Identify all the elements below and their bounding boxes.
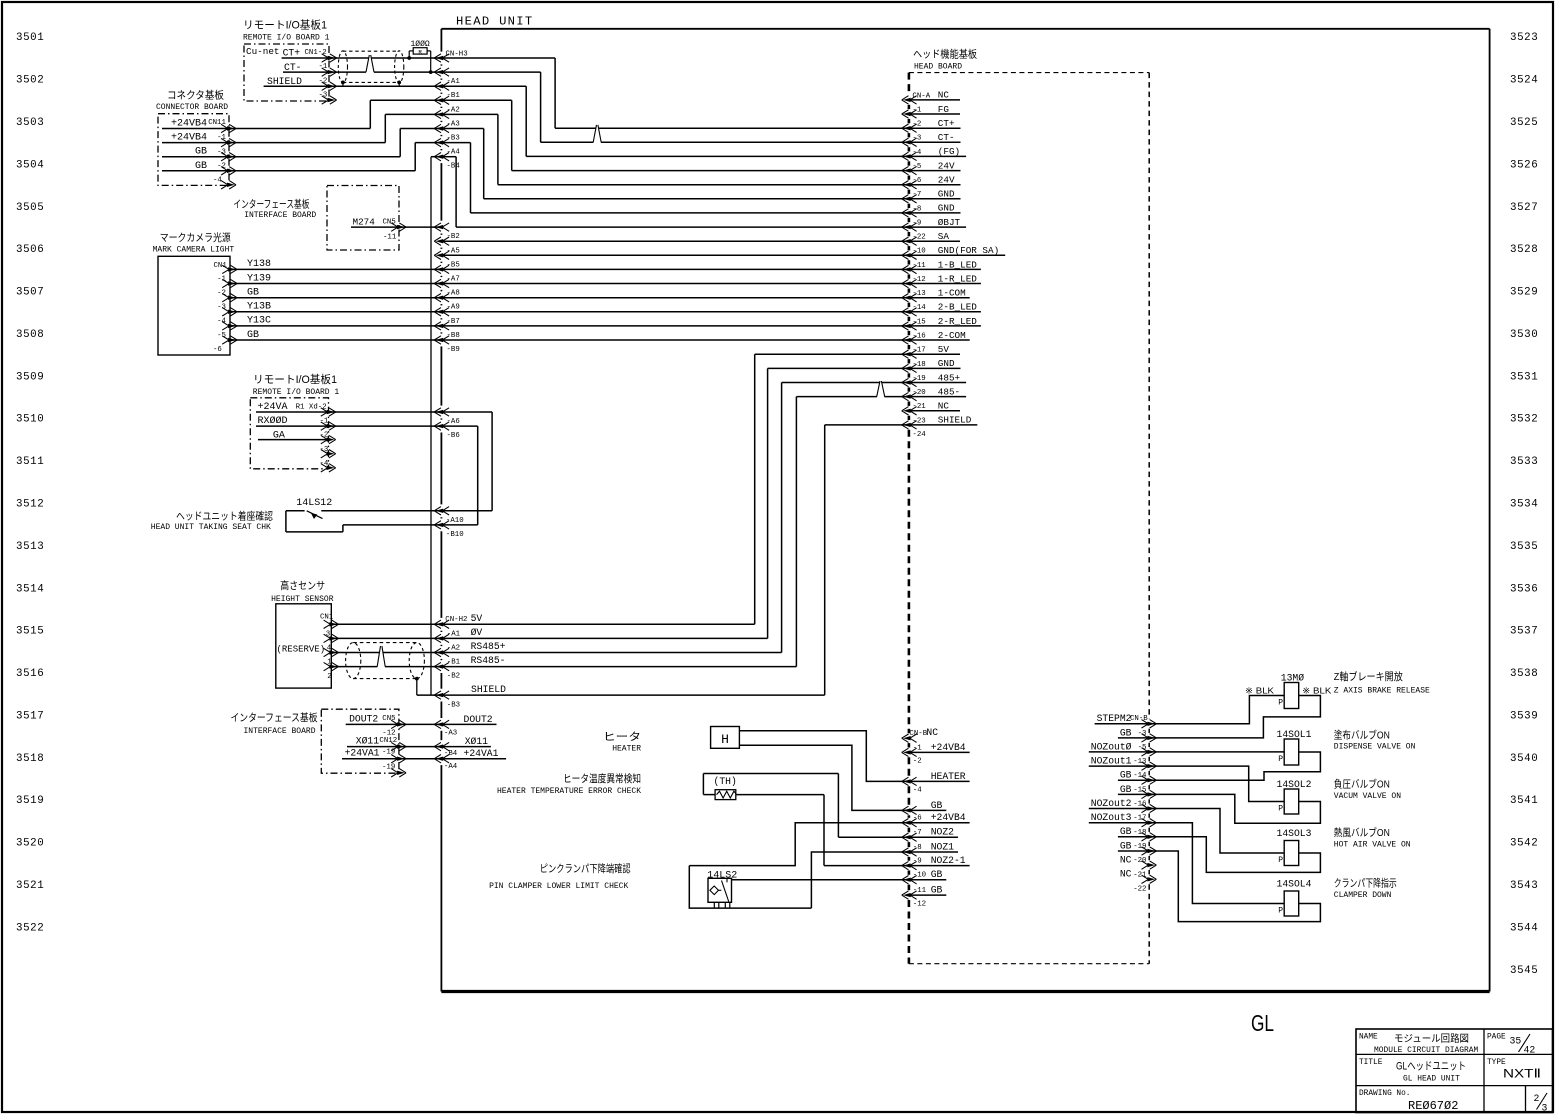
net -A6 to -A10 (right jog): [441, 412, 492, 511]
svg-text:FG: FG: [938, 104, 949, 115]
svg-text:3530: 3530: [1510, 329, 1538, 341]
svg-text:DRAWING No.: DRAWING No.: [1359, 1090, 1410, 1098]
svg-text:1-COM: 1-COM: [938, 288, 966, 299]
phantom pin -3 (board 1b): [320, 446, 336, 458]
svg-text:NC: NC: [926, 727, 938, 738]
CN-B pin -4 HEATER: [902, 771, 970, 795]
svg-text:NC: NC: [1120, 869, 1132, 880]
svg-text:-B3: -B3: [447, 701, 460, 709]
svg-text:Y139: Y139: [247, 273, 271, 284]
bus pin -B10 label: [434, 521, 463, 539]
svg-text:マークカメラ光源: マークカメラ光源: [160, 231, 231, 244]
heater title: [603, 731, 641, 754]
svg-text:3528: 3528: [1510, 244, 1538, 256]
svg-text:GB: GB: [1120, 727, 1132, 738]
head board CN-A pin -22 SA wire: [441, 231, 960, 245]
svg-text:1: 1: [327, 659, 332, 667]
remote I/O board 1b box: [250, 398, 328, 469]
remote I/O board 1 title: [243, 18, 330, 43]
wire 14SOL1 return to GB -14: [1149, 752, 1320, 780]
svg-text:-13: -13: [1133, 758, 1146, 766]
svg-text:DISPENSE VALVE ON: DISPENSE VALVE ON: [1334, 743, 1416, 752]
height sensor box: [276, 604, 332, 688]
connector CN-H3 pin -B3 and staircase wire to head board: [434, 124, 484, 199]
bus pin -B2 label: [434, 223, 460, 241]
svg-text:24V: 24V: [938, 160, 955, 171]
svg-text:-12: -12: [382, 729, 395, 737]
CN-B right pin -16 NOZout2: [1089, 798, 1157, 813]
svg-text:ヒータ: ヒータ: [603, 731, 641, 743]
svg-text:Y13B: Y13B: [247, 302, 271, 313]
svg-text:ヒータ温度異常検知: ヒータ温度異常検知: [563, 772, 641, 785]
head board CN-A pin -17 5V wire: [755, 344, 960, 358]
right margin line number 3535: [1510, 541, 1538, 553]
label RS485- and pin -B1: [447, 655, 506, 666]
wire 14SOL4 return to GB -19: [1149, 851, 1320, 922]
svg-text:3523: 3523: [1510, 32, 1538, 44]
title block DRAWING cell: [1359, 1090, 1458, 1113]
svg-text:HEATER: HEATER: [612, 745, 641, 754]
svg-text:-16: -16: [1133, 801, 1146, 809]
connector board pin -2 GB wire: [162, 143, 441, 175]
right margin line number 3525: [1510, 117, 1538, 129]
CN-B pin -10 GB: [902, 869, 947, 884]
svg-text:熱風バルブON: 熱風バルブON: [1334, 826, 1390, 839]
svg-text:SHIELD: SHIELD: [267, 76, 302, 87]
connector CN-H3 pin CN-H3 and staircase wire to head board: [434, 50, 555, 128]
head board dashed box: [909, 73, 1149, 964]
svg-text:GL: GL: [1251, 1010, 1274, 1036]
heater H box: [711, 727, 740, 749]
svg-text:3521: 3521: [16, 880, 44, 892]
svg-text:3518: 3518: [16, 753, 44, 765]
svg-text:-A4: -A4: [444, 763, 458, 771]
head board CN-A pin -10 GND(FOR SA) wire: [441, 245, 1005, 259]
left margin line number 3503: [16, 117, 44, 129]
phantom pin -3: [319, 92, 337, 105]
title block TYPE cell: [1487, 1059, 1541, 1081]
svg-text:GB: GB: [247, 330, 259, 341]
left margin line number 3506: [16, 244, 44, 256]
connector CN-H3 pin -B4 and staircase wire to head board: [434, 153, 460, 228]
svg-text:HEAD BOARD: HEAD BOARD: [914, 63, 962, 72]
solenoid 14SOL3: [1277, 828, 1312, 866]
interface board 2 title: [231, 711, 318, 736]
twisted pair crossover pinch: [366, 55, 374, 74]
svg-text:-10: -10: [913, 872, 926, 880]
CN-B pin -7 NOZ2: [902, 827, 958, 842]
head board CN-A pin -21 NC wire: [902, 401, 960, 415]
wire 14SOL2 return to GB -15: [1149, 794, 1320, 823]
svg-text:GB: GB: [931, 869, 943, 880]
camera light pin -1 Y139 wire to head board: [217, 273, 981, 297]
svg-text:3507: 3507: [16, 287, 44, 299]
svg-text:3520: 3520: [16, 838, 44, 850]
head board CN-A pin -13 1-COM wire: [902, 288, 966, 302]
bus pin -A10 label: [434, 507, 463, 525]
svg-text:P: P: [1278, 699, 1283, 708]
svg-text:-9: -9: [913, 858, 922, 866]
svg-text:3526: 3526: [1510, 159, 1538, 171]
svg-text:3542: 3542: [1510, 838, 1538, 850]
svg-text:R1 Xd-2: R1 Xd-2: [296, 403, 327, 411]
svg-text:CT-: CT-: [938, 132, 955, 143]
svg-text:485-: 485-: [938, 386, 960, 397]
wire X011 (CN12) to -B4: [347, 736, 491, 759]
CN-B right pin -5 NOZout0: [1089, 741, 1157, 756]
svg-text:14SOL4: 14SOL4: [1277, 879, 1312, 890]
right margin line number 3543: [1510, 880, 1538, 892]
connector CN-H3 pin -A3 and staircase wire to head board: [434, 110, 498, 185]
CN-A pin -24 label: [912, 431, 926, 439]
connector board title: [156, 89, 228, 112]
right margin line number 3526: [1510, 159, 1538, 171]
svg-text:14SOL3: 14SOL3: [1277, 828, 1312, 839]
svg-text:-19: -19: [1133, 843, 1146, 851]
CN-B pin -12 label: [913, 901, 926, 909]
svg-text:3508: 3508: [16, 329, 44, 341]
head board CN-A pin -9 ØBJT wire: [456, 217, 966, 231]
svg-text:(TH): (TH): [714, 776, 737, 787]
heater temp check title: [497, 772, 641, 796]
CN-B pin -11 GB: [902, 885, 947, 900]
svg-text:XØ11: XØ11: [356, 736, 379, 747]
svg-text:-2: -2: [217, 290, 226, 298]
height sensor pin 4 label: [327, 645, 332, 653]
CN-H2 label and 5V: [445, 613, 482, 624]
head board title: [913, 48, 977, 72]
wire NOZout1 to 14SOL2: [1149, 766, 1284, 801]
svg-text:4: 4: [327, 645, 332, 653]
svg-text:-19: -19: [912, 375, 925, 383]
phantom pin -4 (board 1b): [320, 460, 336, 472]
right margin line number 3545: [1510, 965, 1538, 977]
connector board box: [158, 114, 229, 186]
svg-text:GB: GB: [247, 288, 259, 299]
svg-text:CT+: CT+: [283, 48, 301, 59]
height sensor pin 3 label: [326, 631, 330, 639]
remote I/O board 1 box: [244, 44, 329, 101]
svg-text:GLヘッドユニット: GLヘッドユニット: [1396, 1061, 1466, 1073]
svg-text:CN1: CN1: [214, 262, 228, 270]
svg-text:-2: -2: [913, 757, 922, 765]
svg-text:-B6: -B6: [447, 432, 460, 440]
resistor R 100 ohm: [409, 40, 431, 72]
head board CN-A pin -4 (FG) wire: [526, 146, 966, 160]
title block sheet number: [1534, 1093, 1548, 1114]
svg-text:-11: -11: [383, 234, 397, 242]
wire +24VA1 (-19) to -A4: [342, 748, 506, 772]
svg-text:3532: 3532: [1510, 414, 1538, 426]
shield tap junction (height): [415, 677, 442, 695]
cable shield tube (height sensor): [346, 643, 425, 679]
svg-text:3534: 3534: [1510, 499, 1538, 511]
Z axis brake release title: [1334, 670, 1430, 696]
title block NAME cell: [1359, 1032, 1478, 1055]
svg-text:負圧バルブON: 負圧バルブON: [1334, 778, 1390, 791]
svg-text:14LS12: 14LS12: [296, 498, 332, 509]
svg-text:塗布バルブON: 塗布バルブON: [1334, 729, 1390, 742]
svg-text:CN1-2: CN1-2: [305, 49, 327, 57]
wire CT+ (CN1-2): [282, 48, 442, 63]
svg-text:Z軸ブレーキ開放: Z軸ブレーキ開放: [1334, 670, 1403, 683]
svg-text:-14: -14: [912, 304, 926, 312]
svg-text:GB: GB: [1120, 784, 1132, 795]
left margin line number 3505: [16, 202, 44, 214]
riser ØV to head board: [441, 368, 767, 638]
left margin line number 3521: [16, 880, 44, 892]
left margin line number 3501: [16, 32, 44, 44]
svg-text:-15: -15: [1133, 786, 1146, 794]
brake coil 13M0: [1278, 673, 1304, 709]
svg-text:MODULE CIRCUIT DIAGRAM: MODULE CIRCUIT DIAGRAM: [1374, 1046, 1478, 1055]
clamper down title: [1334, 877, 1397, 901]
svg-text:3536: 3536: [1510, 583, 1538, 595]
svg-text:-A2: -A2: [447, 644, 460, 652]
svg-text:3515: 3515: [16, 626, 44, 638]
svg-text:インターフェース基板: インターフェース基板: [231, 711, 318, 724]
limit switch 14LS12: [286, 498, 442, 532]
svg-text:NC: NC: [1120, 855, 1132, 866]
svg-text:3502: 3502: [16, 75, 44, 87]
svg-text:NOZ2: NOZ2: [931, 827, 954, 838]
svg-text:リモートI/O基板1: リモートI/O基板1: [253, 372, 337, 386]
label RS485+ and pin -A2: [447, 641, 506, 652]
head board CN-A pin -1 FG wire: [902, 104, 960, 118]
svg-text:+24VB4: +24VB4: [931, 812, 966, 823]
right margin line number 3538: [1510, 668, 1538, 680]
remote I/O board 1b title: [253, 372, 340, 397]
svg-text:-18: -18: [912, 361, 925, 369]
wire 13M0 return to GB -3: [1149, 696, 1320, 738]
svg-text:(FG): (FG): [938, 146, 960, 157]
head board CN-A pin -20 485- wire: [796, 386, 966, 400]
svg-text:Y13C: Y13C: [247, 316, 271, 327]
right margin line number 3533: [1510, 456, 1538, 468]
svg-text:NOZout1: NOZout1: [1091, 756, 1132, 767]
svg-text:24V: 24V: [938, 175, 955, 186]
interface board 2 box: [321, 709, 399, 773]
svg-text:3512: 3512: [16, 499, 44, 511]
svg-text:GND: GND: [938, 358, 955, 369]
svg-text:-10: -10: [912, 248, 925, 256]
svg-text:(RESERVE): (RESERVE): [277, 645, 326, 655]
height sensor pin 1 label: [327, 659, 332, 667]
svg-text:-8: -8: [912, 205, 921, 213]
head board CN-A pin -12 1-R_LED wire: [902, 273, 978, 287]
svg-text:3535: 3535: [1510, 541, 1538, 553]
height sensor reserve label: [277, 645, 326, 655]
svg-text:GB: GB: [1120, 770, 1132, 781]
svg-text:ØV: ØV: [471, 627, 483, 638]
head board CN-A pin -5 24V wire: [512, 160, 961, 174]
left margin line number 3512: [16, 499, 44, 511]
svg-text:REØ67Ø2: REØ67Ø2: [1408, 1099, 1458, 1113]
thermistor TH: [703, 774, 909, 866]
svg-text:GB: GB: [1120, 826, 1132, 837]
svg-text:-7: -7: [912, 191, 921, 199]
svg-text:NC: NC: [938, 401, 950, 412]
svg-text:5V: 5V: [938, 344, 950, 355]
head board CN-A pin -8 GND wire: [471, 203, 961, 217]
height sensor pin CN1 label: [320, 613, 334, 621]
svg-text:-A1: -A1: [447, 630, 461, 638]
svg-text:NAME: NAME: [1359, 1034, 1378, 1042]
svg-text:-1: -1: [912, 106, 921, 114]
head board CN-A pin -15 2-R_LED wire: [902, 316, 978, 330]
svg-text:3539: 3539: [1510, 710, 1538, 722]
svg-text:ピンクランパ下降端確認: ピンクランパ下降端確認: [540, 862, 631, 875]
left margin line number 3509: [16, 371, 44, 383]
right margin line number 3537: [1510, 626, 1538, 638]
left margin line number 3502: [16, 75, 44, 87]
connector board pin CN11 +24VB4 wire: [162, 100, 441, 132]
head unit enclosure box: [441, 29, 1489, 992]
svg-text:-22: -22: [912, 234, 925, 242]
left margin line number 3520: [16, 838, 44, 850]
CN-B pin -8 NOZ1: [902, 841, 958, 856]
right margin line number 3532: [1510, 414, 1538, 426]
svg-text:NOZout2: NOZout2: [1091, 798, 1132, 809]
svg-text:ØBJT: ØBJT: [938, 217, 961, 228]
wire GA (-2): [258, 430, 336, 444]
connector CN-H3 pin -A1 and staircase wire to head board: [434, 68, 540, 142]
svg-text:REMOTE I/O BOARD 1: REMOTE I/O BOARD 1: [243, 33, 330, 42]
pin -B2 label (CN-H2): [447, 673, 460, 681]
height sensor title: [271, 579, 334, 604]
svg-text:DOUT2: DOUT2: [349, 714, 378, 725]
svg-text:-6: -6: [213, 346, 222, 354]
hot air valve title: [1334, 826, 1411, 850]
svg-text:-B10: -B10: [446, 531, 464, 539]
camera light pin -6 label: [213, 346, 222, 354]
svg-text:P: P: [1278, 755, 1283, 764]
svg-text:STEPM2: STEPM2: [1097, 713, 1132, 724]
shield tap junction right: [397, 81, 401, 87]
svg-text:-A3: -A3: [444, 730, 457, 738]
svg-text:HEATER: HEATER: [931, 771, 966, 782]
wire RX00D (-1) to -B6: [256, 415, 460, 440]
svg-text:-22: -22: [1133, 885, 1146, 893]
svg-text:ヘッドユニット着座確認: ヘッドユニット着座確認: [176, 510, 273, 523]
height sensor wire RS485+: [324, 648, 450, 656]
riser 5V to head board: [441, 354, 754, 624]
svg-text:-6: -6: [912, 177, 921, 185]
CN-B connector label / NC pin: [902, 727, 939, 743]
svg-text:-5: -5: [912, 163, 921, 171]
vacuum valve title: [1334, 778, 1401, 802]
head board CN-A pin -18 GND wire: [768, 358, 961, 372]
svg-text:+24VA1: +24VA1: [345, 748, 380, 759]
svg-text:MARK CAMERA LIGHT: MARK CAMERA LIGHT: [153, 246, 235, 255]
svg-text:NOZ1: NOZ1: [931, 841, 954, 852]
svg-text:NOZ2-1: NOZ2-1: [931, 855, 966, 866]
svg-text:3513: 3513: [16, 541, 44, 553]
svg-text:※ BLK: ※ BLK: [1302, 685, 1331, 695]
svg-text:-21: -21: [912, 403, 926, 411]
wire 14SOL3 return to GB -18: [1149, 837, 1320, 873]
svg-text:HOT AIR VALVE ON: HOT AIR VALVE ON: [1334, 841, 1411, 850]
svg-text:Y138: Y138: [247, 259, 271, 270]
connector board pin -1 +24VB4 wire: [162, 114, 441, 146]
svg-text:CT+: CT+: [938, 118, 955, 129]
limit switch 14LS2: [707, 870, 737, 908]
CN-B right pin -22 label: [1133, 885, 1146, 893]
head board CN-A pin -7 GND wire: [484, 189, 961, 203]
svg-text:-B2: -B2: [447, 673, 460, 681]
svg-text:-4: -4: [213, 176, 222, 184]
CN-B pin -1 +24VB4: [902, 742, 970, 757]
svg-text:3517: 3517: [16, 710, 44, 722]
left margin line number 3508: [16, 329, 44, 341]
svg-text:GB: GB: [1120, 840, 1132, 851]
head board CN-A pin -3 CT- wire: [541, 132, 961, 146]
svg-text:3537: 3537: [1510, 626, 1538, 638]
svg-text:3505: 3505: [16, 202, 44, 214]
svg-text:-B4: -B4: [447, 163, 461, 171]
svg-text:高さセンサ: 高さセンサ: [280, 579, 325, 592]
svg-text:3501: 3501: [16, 32, 44, 44]
svg-text:PIN CLAMPER LOWER LIMIT CHECK: PIN CLAMPER LOWER LIMIT CHECK: [489, 882, 628, 891]
CN-B right pin -17 NOZout3: [1089, 812, 1157, 827]
junction dot R to CT-: [429, 70, 433, 74]
head board CN-A pin -19 485+ wire: [782, 372, 967, 386]
svg-text:-11: -11: [913, 887, 927, 895]
wire switch to NOZ1: [811, 852, 909, 908]
twisted pair crossover pinch (height): [377, 646, 385, 668]
mark camera light box: [158, 256, 230, 355]
svg-text:-4: -4: [913, 787, 922, 795]
svg-text:CN5: CN5: [383, 218, 396, 226]
right margin line number 3531: [1510, 371, 1538, 383]
left margin line number 3522: [16, 922, 44, 934]
label BLK left: [1245, 685, 1274, 695]
height sensor pin 2 label: [327, 673, 331, 681]
label BLK right: [1302, 685, 1331, 695]
svg-text:REMOTE I/O BOARD 1: REMOTE I/O BOARD 1: [253, 388, 340, 397]
CN-B right pin -3 GB: [1118, 727, 1157, 742]
right margin line number 3539: [1510, 710, 1538, 722]
svg-text:-1: -1: [217, 275, 226, 283]
left margin line number 3517: [16, 710, 44, 722]
svg-text:R: R: [418, 48, 422, 55]
CN-B right pin STEPM2: [1095, 713, 1157, 728]
solenoid 14SOL1: [1277, 729, 1312, 765]
svg-text:3511: 3511: [16, 456, 44, 468]
svg-text:-2: -2: [912, 121, 921, 129]
CN-B pin -6 +24VB4: [902, 812, 970, 827]
svg-text:3525: 3525: [1510, 117, 1538, 129]
svg-text:3527: 3527: [1510, 202, 1538, 214]
interface board 2 phantom pin -19: [382, 764, 406, 778]
left margin line number 3515: [16, 626, 44, 638]
height sensor wire ØV: [324, 634, 450, 642]
CN-B right pin -18 GB: [1118, 826, 1157, 841]
right margin line number 3529: [1510, 287, 1538, 299]
interface board title: [233, 197, 316, 220]
svg-text:GND: GND: [938, 189, 955, 200]
svg-text:TITLE: TITLE: [1359, 1059, 1383, 1067]
svg-text:3540: 3540: [1510, 753, 1538, 765]
seat check title: [151, 510, 274, 533]
svg-text:+24VA1: +24VA1: [464, 748, 499, 759]
svg-text:3509: 3509: [16, 371, 44, 383]
svg-text:3533: 3533: [1510, 456, 1538, 468]
svg-text:INTERFACE BOARD: INTERFACE BOARD: [244, 211, 316, 220]
right margin line number 3541: [1510, 795, 1538, 807]
head board CN-A pin -11 1-B_LED wire: [902, 259, 978, 273]
svg-text:3503: 3503: [16, 117, 44, 129]
